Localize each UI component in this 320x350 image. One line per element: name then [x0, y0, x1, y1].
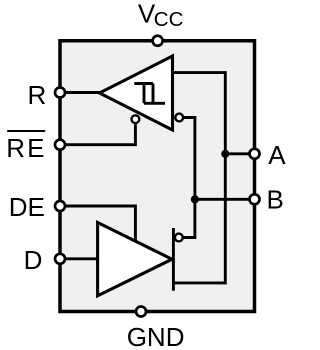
pin Vcc [153, 36, 163, 46]
hysteresis symbol [134, 84, 165, 104]
bubble receiver enable [132, 115, 140, 123]
bubble receiver inverting input [175, 114, 183, 122]
svg-text:CC: CC [154, 8, 184, 31]
wire RE enable [64, 124, 135, 145]
pin R [55, 88, 65, 98]
pin A [250, 149, 260, 159]
svg-text:R: R [28, 80, 47, 110]
wire R output [64, 91, 100, 94]
wire receiver A input to driver A output bus [173, 73, 226, 283]
junction node B [191, 195, 199, 203]
pin DE [55, 201, 65, 211]
wire net A [225, 152, 249, 155]
op-amp receiver triangle [100, 56, 173, 130]
junction node A [221, 150, 229, 158]
op-amp driver triangle [98, 223, 172, 296]
pin GND [136, 307, 146, 317]
svg-text:B: B [267, 184, 284, 214]
svg-text:RE: RE [6, 133, 47, 163]
wire receiver B input to driver B output bus [184, 118, 195, 238]
svg-text:GND: GND [127, 322, 185, 350]
pin D [55, 254, 65, 264]
bubble driver inverting output [175, 234, 183, 242]
IC body U1 [60, 41, 255, 312]
svg-text:A: A [268, 140, 286, 170]
wire D input [64, 257, 98, 260]
svg-text:D: D [24, 245, 43, 275]
svg-text:DE: DE [9, 192, 45, 222]
label RE overline [7, 130, 45, 132]
pin B [250, 194, 260, 204]
wire driver output bar [172, 228, 175, 291]
pin RE [55, 140, 65, 150]
wire DE enable [64, 206, 135, 242]
wire net B [195, 198, 249, 201]
